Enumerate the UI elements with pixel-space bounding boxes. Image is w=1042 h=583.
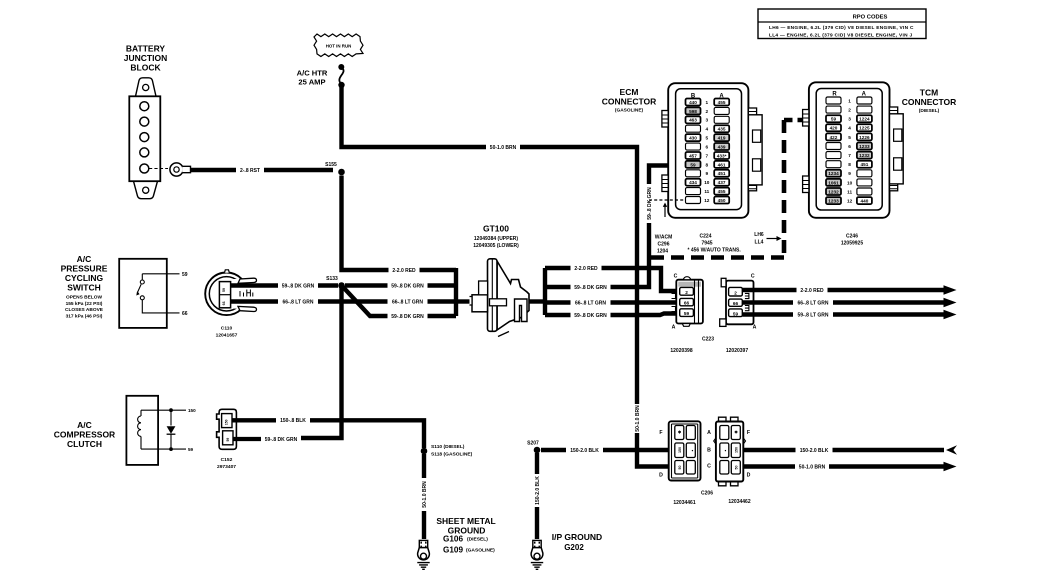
svg-text:12: 12 xyxy=(847,199,853,204)
ECM pin row 8 xyxy=(686,161,701,168)
svg-text:422: 422 xyxy=(830,135,838,140)
svg-text:B: B xyxy=(707,448,711,454)
svg-text:S110 (DIESEL): S110 (DIESEL) xyxy=(431,444,465,450)
svg-text:10: 10 xyxy=(704,180,710,185)
ECM pin row 7 xyxy=(686,152,701,159)
svg-text:3: 3 xyxy=(848,117,851,122)
svg-text:C224: C224 xyxy=(700,234,712,240)
svg-text:50-1.0 BRN: 50-1.0 BRN xyxy=(799,464,826,470)
wire 59-.8 DK GRN diagonal branch to GT100 xyxy=(343,287,456,316)
wire 59-.8 DK GRN up to ECM pin B8 xyxy=(545,166,685,288)
svg-text:S207: S207 xyxy=(527,441,539,447)
ECM pin row 11 xyxy=(686,188,701,195)
svg-text:2-2.0 RED: 2-2.0 RED xyxy=(800,288,824,294)
svg-text:CONNECTOR: CONNECTOR xyxy=(602,97,657,107)
svg-text:CONNECTOR: CONNECTOR xyxy=(902,97,957,107)
svg-text:150-.8 BLK: 150-.8 BLK xyxy=(280,418,306,424)
svg-text:D: D xyxy=(659,473,663,479)
svg-text:12049305 (LOWER): 12049305 (LOWER) xyxy=(473,243,519,249)
svg-text:LH6 — ENGINE, 6.2L (379 CID) V: LH6 — ENGINE, 6.2L (379 CID) V8 DIESEL E… xyxy=(769,25,914,31)
svg-text:12020397: 12020397 xyxy=(726,348,748,354)
wire 66-.8 LT GRN to C223 xyxy=(545,300,678,304)
svg-text:12: 12 xyxy=(704,198,710,203)
svg-text:9: 9 xyxy=(848,171,851,176)
svg-text:25 AMP: 25 AMP xyxy=(298,78,325,87)
dashed link to ring terminal xyxy=(149,168,168,170)
svg-text:420: 420 xyxy=(830,126,838,131)
ring terminal G106 xyxy=(419,540,427,547)
svg-text:GT100: GT100 xyxy=(483,224,509,234)
svg-text:150: 150 xyxy=(225,419,229,425)
ECM connector label xyxy=(602,87,657,114)
svg-text:A/C: A/C xyxy=(77,420,92,430)
svg-text:CLOSES ABOVE: CLOSES ABOVE xyxy=(65,307,104,313)
svg-text:●: ● xyxy=(725,449,727,453)
svg-text:150-2.0 BLK: 150-2.0 BLK xyxy=(570,448,599,454)
svg-text:59: 59 xyxy=(188,447,194,452)
wire 150-2.0 BLK from S207 to C206 xyxy=(541,448,669,452)
svg-text:1233: 1233 xyxy=(859,144,870,149)
svg-text:150-2.0 BLK: 150-2.0 BLK xyxy=(535,476,541,505)
svg-text:1: 1 xyxy=(848,98,851,103)
svg-text:(GASOLINE): (GASOLINE) xyxy=(615,108,644,114)
svg-text:435: 435 xyxy=(718,127,726,132)
svg-text:461: 461 xyxy=(718,162,726,167)
svg-text:HOT IN RUN: HOT IN RUN xyxy=(326,43,352,48)
svg-text:463: 463 xyxy=(689,118,697,123)
svg-text:ECM: ECM xyxy=(620,87,639,97)
svg-text:F: F xyxy=(659,430,662,436)
svg-text:PRESSURE: PRESSURE xyxy=(61,264,108,274)
wire 150-.8 BLK from C152 to S110 xyxy=(232,420,424,448)
svg-text:1226: 1226 xyxy=(859,135,870,140)
svg-text:1234: 1234 xyxy=(828,171,839,176)
svg-text:2: 2 xyxy=(685,290,688,295)
svg-text:2973407: 2973407 xyxy=(217,464,236,470)
TCM connector label xyxy=(902,88,957,115)
svg-text:G202: G202 xyxy=(564,543,584,552)
GT100 labels xyxy=(473,224,519,249)
svg-text:12049384 (UPPER): 12049384 (UPPER) xyxy=(474,236,519,242)
svg-text:BLOCK: BLOCK xyxy=(130,63,161,73)
LH6 LL4 tag xyxy=(754,232,781,245)
svg-text:C246: C246 xyxy=(846,234,858,240)
ECM pin row 1 xyxy=(686,99,701,106)
svg-text:66: 66 xyxy=(222,301,226,305)
wire bus GT100 right xyxy=(529,299,545,303)
svg-text:1225: 1225 xyxy=(859,126,870,131)
TCM pin row 1 xyxy=(826,97,841,104)
wire 59-.8 DK GRN from C152 xyxy=(233,437,299,441)
svg-text:5: 5 xyxy=(848,135,851,140)
wire 59-.8 DK GRN from C110 to S133 xyxy=(231,283,339,288)
TCM pin row 3 xyxy=(826,115,841,122)
splice S110/S118 xyxy=(421,448,428,455)
wire 2-2.0 RED out xyxy=(743,288,945,292)
svg-text:C152: C152 xyxy=(221,457,233,463)
svg-text:50: 50 xyxy=(678,466,682,470)
svg-text:(DIESEL): (DIESEL) xyxy=(919,108,940,114)
sheet metal ground label xyxy=(436,516,495,554)
splice S207 xyxy=(534,447,541,454)
svg-text:8: 8 xyxy=(848,162,851,167)
svg-text:66: 66 xyxy=(733,301,739,306)
TCM pin row 10 xyxy=(826,179,841,186)
svg-text:433*: 433* xyxy=(717,153,727,158)
svg-text:59: 59 xyxy=(831,117,837,122)
svg-text:66-.8 LT GRN: 66-.8 LT GRN xyxy=(392,299,423,305)
svg-text:434: 434 xyxy=(689,180,697,185)
ECM pin row 3 xyxy=(686,116,701,123)
svg-text:430: 430 xyxy=(689,136,697,141)
svg-text:4: 4 xyxy=(848,126,851,131)
wire 2-2.0 RED to C223 xyxy=(545,268,678,291)
svg-text:3: 3 xyxy=(705,118,708,123)
svg-text:●: ● xyxy=(692,449,694,453)
fuse A/C HTR 25 AMP xyxy=(297,64,345,88)
svg-text:455: 455 xyxy=(718,189,726,194)
svg-text:155 kPa (22 PSI): 155 kPa (22 PSI) xyxy=(66,301,103,307)
A/C compressor clutch xyxy=(126,396,196,465)
svg-text:A/C HTR: A/C HTR xyxy=(297,69,328,78)
TCM pin row 6 xyxy=(826,143,841,150)
ECM pin row 4 xyxy=(686,125,701,132)
svg-text:6: 6 xyxy=(848,144,851,149)
svg-text:66-.8 LT GRN: 66-.8 LT GRN xyxy=(797,300,828,306)
svg-text:59-.8 LT GRN: 59-.8 LT GRN xyxy=(797,312,828,318)
svg-text:A: A xyxy=(753,325,757,331)
wire 59-.8 DK GRN to C223 xyxy=(545,314,678,316)
TCM pin row 8 xyxy=(826,161,841,168)
svg-text:150: 150 xyxy=(735,447,739,453)
A/C pressure cycling switch xyxy=(119,259,188,328)
TCM pin row 4 xyxy=(826,124,841,131)
ground symbol G202 xyxy=(531,563,543,570)
ring terminal (battery feed) xyxy=(170,163,191,176)
svg-text:1061: 1061 xyxy=(828,180,839,185)
svg-text:LL4 — ENGINE, 6.2L (379 CID) V: LL4 — ENGINE, 6.2L (379 CID) V8 DIESEL E… xyxy=(769,32,912,38)
svg-text:59: 59 xyxy=(182,272,188,278)
wire 66-.8 LT GRN out xyxy=(743,300,945,304)
svg-text:* 456 W/AUTO TRANS.: * 456 W/AUTO TRANS. xyxy=(688,248,742,254)
svg-text:50: 50 xyxy=(735,466,739,470)
grommet GT100 xyxy=(470,259,530,337)
svg-text:D: D xyxy=(747,473,751,479)
svg-text:2-.8 RST: 2-.8 RST xyxy=(240,168,260,174)
svg-text:66: 66 xyxy=(182,311,188,317)
svg-text:2-2.0 RED: 2-2.0 RED xyxy=(574,266,598,272)
svg-text:451: 451 xyxy=(860,162,868,167)
TCM connector C246 xyxy=(803,82,904,218)
svg-text:COMPRESSOR: COMPRESSOR xyxy=(54,430,115,440)
svg-text:419: 419 xyxy=(718,136,726,141)
svg-text:12041657: 12041657 xyxy=(216,333,238,339)
svg-text:59-.8 DK GRN: 59-.8 DK GRN xyxy=(574,285,607,291)
svg-text:451: 451 xyxy=(718,171,726,176)
wire S155 down to 2-2.0 RED feed xyxy=(342,176,457,271)
ECM connector C224 xyxy=(662,83,762,218)
svg-text:59: 59 xyxy=(733,311,739,316)
dashed wire 59 to TCM (diesel) xyxy=(651,255,784,260)
svg-text:2: 2 xyxy=(734,290,737,295)
ECM pin row 2 xyxy=(686,107,701,114)
A/C compressor clutch label xyxy=(54,420,115,449)
svg-text:9: 9 xyxy=(705,171,708,176)
svg-text:RPO CODES: RPO CODES xyxy=(853,15,888,21)
svg-text:59: 59 xyxy=(222,288,226,292)
svg-text:C223: C223 xyxy=(702,337,714,343)
svg-text:59: 59 xyxy=(690,162,696,167)
wire 59-.8 LT GRN out xyxy=(743,312,945,316)
connector C206 half 12034462 xyxy=(707,417,751,486)
svg-text:59-.8 DK GRN: 59-.8 DK GRN xyxy=(391,283,424,289)
svg-text:C: C xyxy=(751,274,755,280)
ground symbol G106 xyxy=(417,563,429,570)
svg-text:7: 7 xyxy=(705,153,708,158)
svg-text:(GASOLINE): (GASOLINE) xyxy=(466,548,495,554)
svg-text:59-.8 DK GRN: 59-.8 DK GRN xyxy=(265,437,298,443)
wire fuse down and 50-1.0 BRN across top, down right side to C206 xyxy=(342,86,670,467)
svg-text:7945: 7945 xyxy=(701,241,712,247)
svg-text:455: 455 xyxy=(718,100,726,105)
A/C pressure cycling switch label xyxy=(61,254,108,319)
svg-text:1233: 1233 xyxy=(828,199,839,204)
dashed W/ACM link to pin B12 xyxy=(649,200,686,255)
svg-text:8: 8 xyxy=(705,162,708,167)
svg-text:59-.8 DK GRN: 59-.8 DK GRN xyxy=(574,313,607,319)
svg-text:11: 11 xyxy=(704,189,709,194)
svg-text:4: 4 xyxy=(705,127,708,132)
battery junction block label xyxy=(124,44,167,73)
svg-text:CYCLING: CYCLING xyxy=(65,273,104,283)
svg-text:1232: 1232 xyxy=(859,153,870,158)
wire 50-1.0 BRN out xyxy=(743,464,944,468)
svg-text:440: 440 xyxy=(860,199,868,204)
wire 2-.8 RST xyxy=(191,168,334,172)
svg-text:C206: C206 xyxy=(701,491,713,497)
svg-text:12020398: 12020398 xyxy=(670,348,692,354)
svg-text:1224: 1224 xyxy=(859,117,870,122)
battery junction block xyxy=(129,78,160,199)
wire 150-2.0 BLK down to G202 xyxy=(535,453,539,539)
svg-text:S133: S133 xyxy=(326,276,338,282)
svg-text:317 kPa (46 PSI): 317 kPa (46 PSI) xyxy=(66,313,103,319)
svg-text:SWITCH: SWITCH xyxy=(67,283,101,293)
RPO codes table xyxy=(758,9,926,39)
svg-text:A: A xyxy=(672,325,676,331)
svg-text:66: 66 xyxy=(684,301,690,306)
svg-text:59: 59 xyxy=(226,438,230,442)
svg-text:2: 2 xyxy=(705,109,708,114)
svg-text:I/P GROUND: I/P GROUND xyxy=(552,532,602,542)
ECM pin row 10 xyxy=(686,179,701,186)
connector C152 xyxy=(217,409,237,449)
svg-text:150-2.0 BLK: 150-2.0 BLK xyxy=(800,448,829,454)
svg-text:G106: G106 xyxy=(443,535,463,544)
wire S133 down to compressor clutch xyxy=(299,287,342,438)
svg-text:59-.8 DK GRN: 59-.8 DK GRN xyxy=(391,314,424,320)
svg-text:12034462: 12034462 xyxy=(728,499,750,505)
svg-text:W/ACM: W/ACM xyxy=(655,235,673,241)
svg-text:G109: G109 xyxy=(443,545,463,554)
TCM pin row 7 xyxy=(826,152,841,159)
svg-text:LL4: LL4 xyxy=(755,240,764,246)
connector C223 female xyxy=(720,274,757,331)
svg-text:CLUTCH: CLUTCH xyxy=(67,439,102,449)
svg-text:OPENS BELOW: OPENS BELOW xyxy=(66,295,102,301)
connector C223 male xyxy=(672,274,703,331)
wire 150-2.0 BLK out (arrow back) xyxy=(743,448,944,452)
svg-text:7: 7 xyxy=(848,153,851,158)
svg-text:12034461: 12034461 xyxy=(673,500,695,506)
ECM pin row 9 xyxy=(686,170,701,177)
I/P ground label xyxy=(552,532,602,552)
svg-text:11: 11 xyxy=(847,189,852,194)
svg-text:C: C xyxy=(707,464,711,470)
svg-text:150: 150 xyxy=(188,408,196,413)
svg-text:59-.8 DK GRN: 59-.8 DK GRN xyxy=(647,187,653,220)
svg-text:10: 10 xyxy=(847,180,853,185)
svg-text:66-.8 LT GRN: 66-.8 LT GRN xyxy=(282,299,313,305)
wire 50-1.0 BRN down to G106 xyxy=(422,454,426,539)
svg-text:S118 (GASOLINE): S118 (GASOLINE) xyxy=(431,452,473,458)
svg-text:439: 439 xyxy=(718,144,726,149)
hot in run box xyxy=(314,34,363,57)
svg-text:1204: 1204 xyxy=(657,249,668,255)
svg-text:50-1.0 BRN: 50-1.0 BRN xyxy=(635,405,641,432)
ECM pin row 5 xyxy=(686,134,701,141)
vertical label 50-1.0 BRN right side xyxy=(634,404,641,433)
svg-text:LH6: LH6 xyxy=(754,232,764,238)
svg-text:440: 440 xyxy=(689,100,697,105)
svg-text:59: 59 xyxy=(684,311,690,316)
svg-text:437: 437 xyxy=(718,180,726,185)
ECM pin row 12 xyxy=(686,197,701,204)
svg-text:A: A xyxy=(707,430,711,436)
svg-text:50-1.0 BRN: 50-1.0 BRN xyxy=(490,145,517,151)
connector C110 xyxy=(205,270,256,315)
wire bus GT100 left xyxy=(454,268,458,316)
svg-text:50-1.0 BRN: 50-1.0 BRN xyxy=(422,481,428,508)
svg-text:5: 5 xyxy=(705,136,708,141)
svg-text:1: 1 xyxy=(705,100,708,105)
svg-text:457: 457 xyxy=(689,153,697,158)
svg-text:A/C: A/C xyxy=(77,254,92,264)
svg-text:6: 6 xyxy=(705,144,708,149)
TCM pin row 11 xyxy=(826,188,841,195)
svg-text:F: F xyxy=(747,430,750,436)
TCM pin row 2 xyxy=(826,106,841,113)
svg-text:450: 450 xyxy=(718,198,726,203)
svg-text:C296: C296 xyxy=(658,242,670,248)
svg-text:(DIESEL): (DIESEL) xyxy=(467,537,488,543)
connector C206 half 12034461 xyxy=(659,421,700,480)
svg-text:2: 2 xyxy=(848,108,851,113)
ECM pin row 6 xyxy=(686,143,701,150)
svg-text:150: 150 xyxy=(678,447,682,453)
ring terminal G202 xyxy=(533,540,541,547)
svg-text:BATTERY: BATTERY xyxy=(126,44,166,54)
svg-text:C110: C110 xyxy=(221,326,233,332)
ECM footnote C224 xyxy=(688,234,742,254)
svg-text:1232: 1232 xyxy=(828,189,839,194)
svg-text:66-.8 LT GRN: 66-.8 LT GRN xyxy=(575,300,606,306)
TCM pin row 12 xyxy=(826,197,841,204)
TCM pin row 9 xyxy=(826,170,841,177)
svg-text:598: 598 xyxy=(689,109,697,114)
svg-text:TCM: TCM xyxy=(920,88,938,98)
svg-text:C: C xyxy=(674,274,678,280)
svg-text:59-.8 DK GRN: 59-.8 DK GRN xyxy=(282,283,315,289)
svg-text:2-2.0 RED: 2-2.0 RED xyxy=(392,268,416,274)
TCM pin row 5 xyxy=(826,133,841,140)
svg-text:JUNCTION: JUNCTION xyxy=(124,53,167,63)
svg-text:12059925: 12059925 xyxy=(841,241,863,247)
svg-text:S155: S155 xyxy=(325,162,337,168)
wire 59-.8 DK GRN S133 to GT100 xyxy=(345,283,456,287)
wire 66-.8 LT GRN from C110 to GT100 xyxy=(231,299,457,304)
